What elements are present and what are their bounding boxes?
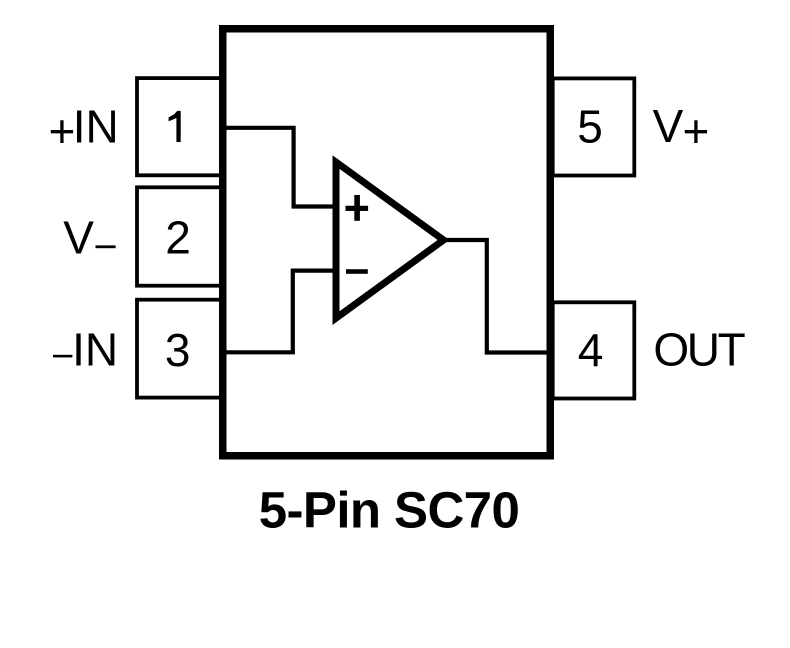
pin 2 box	[137, 187, 221, 285]
svg-text:4: 4	[578, 324, 604, 376]
svg-text:3: 3	[165, 324, 191, 376]
svg-text:5: 5	[577, 100, 603, 152]
svg-text:V: V	[653, 100, 684, 152]
svg-text:2: 2	[165, 212, 191, 264]
pin 1 number	[169, 111, 181, 142]
pin 3 box	[137, 300, 221, 398]
svg-text:+: +	[683, 105, 710, 157]
IC package body U1	[223, 29, 551, 456]
pin 3 label -IN	[53, 324, 118, 376]
op-amp - input symbol	[346, 269, 368, 274]
wire pin3 to op-amp -input	[221, 271, 336, 353]
wire op-amp output to pin4	[446, 240, 553, 353]
svg-text:IN: IN	[73, 100, 119, 152]
pin 2 label V-	[63, 212, 115, 264]
svg-text:IN: IN	[72, 324, 118, 376]
svg-text:5-Pin SC70: 5-Pin SC70	[259, 481, 519, 538]
svg-text:OUT: OUT	[653, 324, 745, 376]
pin 1 box	[137, 78, 221, 175]
op-amp + input symbol	[346, 195, 369, 221]
svg-text:V: V	[63, 212, 94, 264]
pin 5 label V+	[653, 100, 710, 157]
pin 4 box	[553, 302, 635, 398]
pin 5 box	[553, 78, 635, 175]
op-amp A1 triangle	[333, 155, 450, 325]
svg-text:+: +	[49, 105, 76, 157]
wire pin1 to op-amp +input	[221, 128, 336, 207]
pin 1 label +IN	[49, 100, 119, 157]
